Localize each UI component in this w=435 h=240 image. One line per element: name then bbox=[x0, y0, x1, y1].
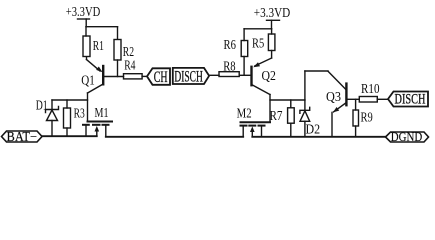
wire supply stub right bbox=[271, 20, 273, 29]
resistor R10 bbox=[359, 81, 388, 102]
resistor R4 bbox=[124, 57, 148, 79]
wire top bar left bbox=[86, 26, 118, 28]
svg-text:Q2: Q2 bbox=[262, 68, 276, 83]
resistor R7 bbox=[270, 100, 295, 137]
net flag CH bbox=[147, 68, 170, 86]
svg-text:R9: R9 bbox=[361, 109, 373, 124]
zener diode D1 bbox=[36, 98, 59, 137]
svg-text:R5: R5 bbox=[252, 35, 264, 50]
svg-text:DISCH: DISCH bbox=[395, 92, 426, 108]
resistor R9 bbox=[353, 99, 373, 137]
svg-text:R1: R1 bbox=[93, 38, 104, 53]
transistor Q1 bbox=[81, 60, 103, 94]
svg-text:R7: R7 bbox=[270, 108, 283, 123]
svg-text:BAT−: BAT− bbox=[7, 129, 38, 144]
resistor R3 bbox=[64, 100, 85, 136]
svg-text:Q1: Q1 bbox=[81, 72, 95, 87]
transistor Q2 bbox=[252, 58, 276, 95]
wire top link to Q3 bbox=[305, 70, 328, 72]
net flag DISCH right bbox=[388, 92, 428, 108]
wire D2 node up bbox=[304, 71, 306, 100]
svg-text:R8: R8 bbox=[223, 58, 236, 73]
resistor R8 bbox=[219, 58, 239, 76]
svg-text:M1: M1 bbox=[95, 105, 109, 120]
svg-text:+3.3VD: +3.3VD bbox=[66, 4, 101, 19]
wire supply stub left bbox=[85, 19, 87, 27]
wire Q1 base bbox=[103, 76, 123, 78]
wire node branch to R7 and D2 bbox=[270, 99, 305, 101]
wire top bar right bbox=[244, 28, 272, 30]
wire R8 to Q2 base bbox=[239, 74, 251, 76]
net flag BAT- bbox=[2, 129, 43, 144]
wire Q1 collector down to M1 gate bbox=[87, 93, 89, 122]
resistor R1 bbox=[83, 27, 104, 60]
resistor R5 bbox=[252, 29, 275, 58]
wire DISCH to R8 bbox=[209, 74, 219, 76]
svg-text:CH: CH bbox=[154, 69, 168, 86]
svg-text:R6: R6 bbox=[224, 37, 237, 52]
zener diode D2 bbox=[300, 100, 320, 137]
wire mid rail M1 drain to M2 source bbox=[106, 136, 243, 138]
power bar +3.3VD right bbox=[267, 19, 280, 21]
power bar +3.3VD left bbox=[78, 18, 90, 20]
wire BAT- rail bbox=[42, 135, 97, 137]
svg-text:DISCH: DISCH bbox=[174, 68, 203, 85]
mosfet M2 bbox=[237, 105, 270, 137]
net flag DISCH left bbox=[173, 68, 209, 85]
svg-text:D1: D1 bbox=[36, 98, 48, 113]
wire Q2 collector down to M2 gate bbox=[269, 95, 271, 123]
wire Q3 base bbox=[346, 98, 359, 100]
wire DGND rail bbox=[252, 136, 385, 138]
resistor R6 bbox=[224, 29, 248, 76]
svg-text:R3: R3 bbox=[74, 105, 85, 120]
resistor R2 bbox=[114, 27, 134, 77]
svg-text:D2: D2 bbox=[306, 122, 321, 137]
svg-text:R4: R4 bbox=[124, 57, 135, 72]
transistor Q3 bbox=[326, 71, 346, 137]
wire node line left bbox=[52, 99, 88, 101]
net flag DGND bbox=[386, 129, 429, 144]
svg-text:R10: R10 bbox=[361, 81, 380, 96]
svg-text:DGND: DGND bbox=[391, 129, 423, 144]
svg-text:Q3: Q3 bbox=[326, 89, 341, 104]
svg-text:M2: M2 bbox=[237, 105, 252, 120]
svg-text:+3.3VD: +3.3VD bbox=[254, 5, 291, 20]
mosfet M1 bbox=[83, 105, 112, 137]
